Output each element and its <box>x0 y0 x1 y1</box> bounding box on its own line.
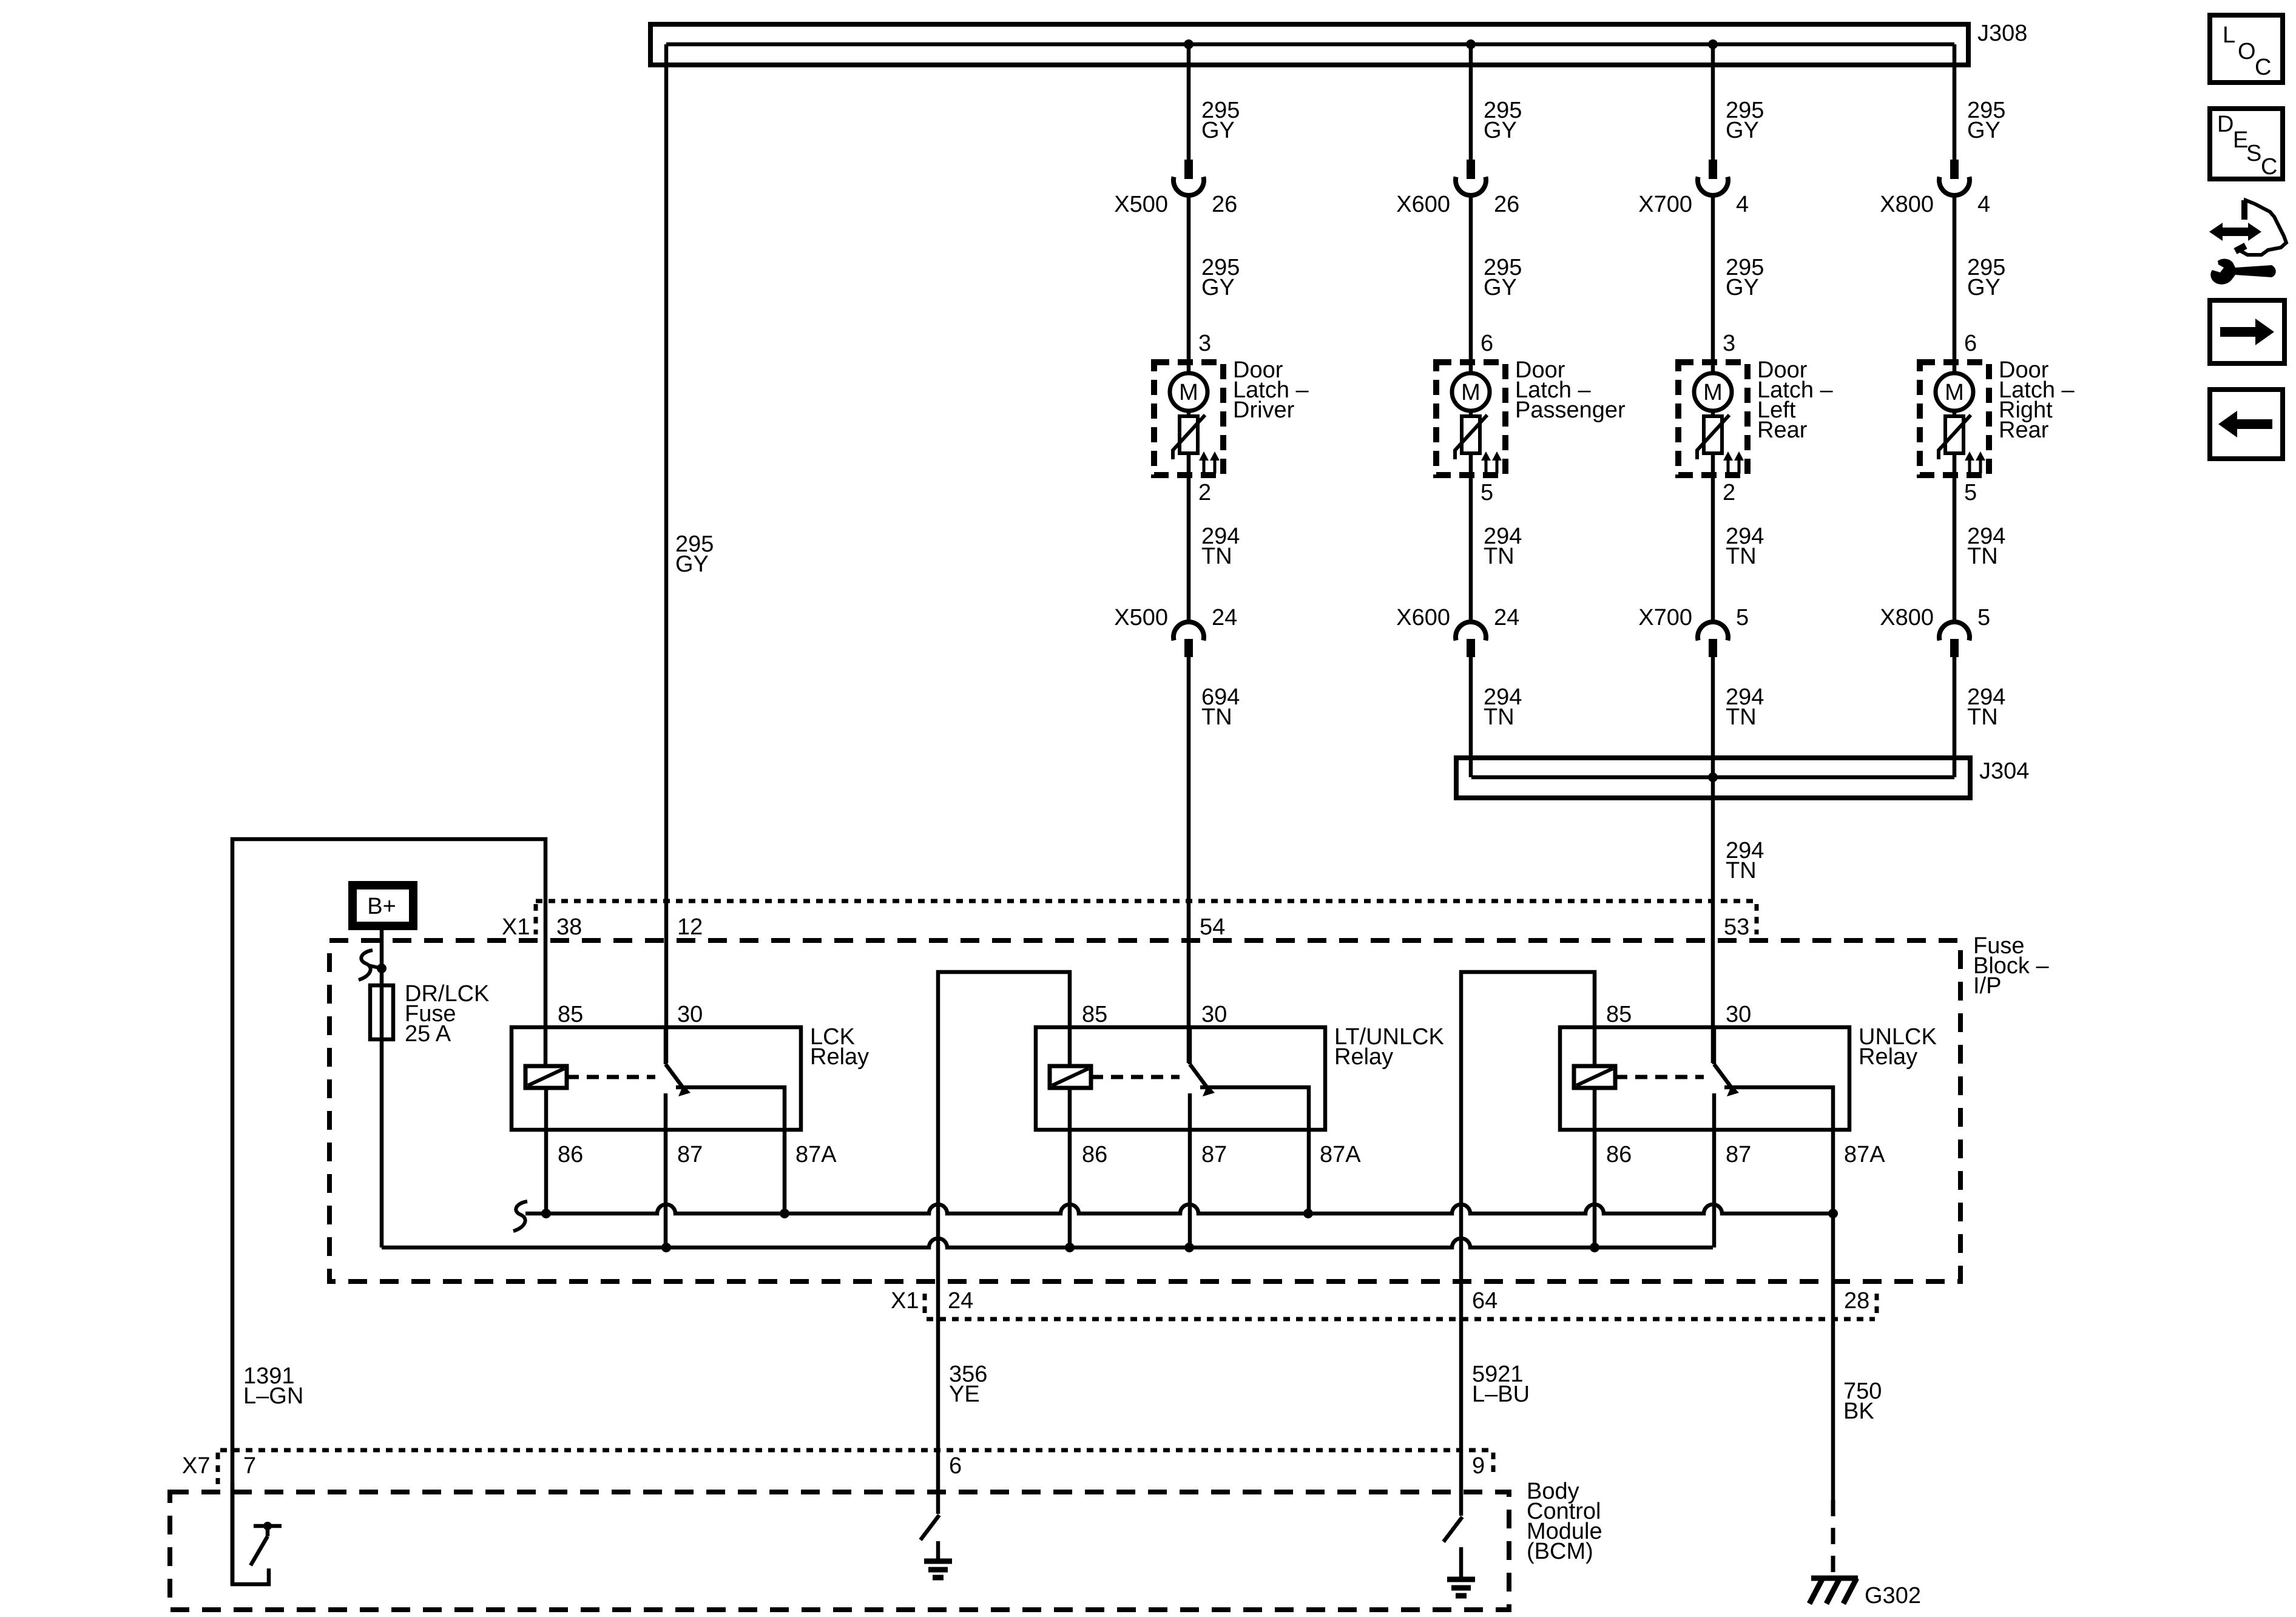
svg-text:TN: TN <box>1726 704 1757 730</box>
svg-text:30: 30 <box>1726 1002 1751 1027</box>
svg-text:X500: X500 <box>1114 605 1168 630</box>
svg-text:6: 6 <box>949 1453 962 1479</box>
svg-text:87A: 87A <box>1320 1142 1361 1167</box>
svg-text:24: 24 <box>1212 605 1237 630</box>
svg-text:YE: YE <box>949 1382 980 1407</box>
svg-text:B+: B+ <box>367 894 396 919</box>
svg-text:GY: GY <box>1484 275 1517 300</box>
svg-text:12: 12 <box>677 914 703 940</box>
svg-text:4: 4 <box>1977 192 1990 217</box>
svg-text:53: 53 <box>1724 914 1749 940</box>
svg-text:TN: TN <box>1726 858 1757 883</box>
svg-text:26: 26 <box>1212 192 1237 217</box>
svg-text:Rear: Rear <box>1757 417 1808 443</box>
svg-text:30: 30 <box>1201 1002 1227 1027</box>
svg-text:86: 86 <box>1606 1142 1632 1167</box>
svg-text:2: 2 <box>1723 480 1735 505</box>
svg-text:TN: TN <box>1484 704 1514 730</box>
svg-text:24: 24 <box>948 1288 973 1314</box>
svg-text:GY: GY <box>675 552 709 577</box>
svg-text:85: 85 <box>1082 1002 1107 1027</box>
svg-text:O: O <box>2238 39 2256 64</box>
svg-text:4: 4 <box>1736 192 1749 217</box>
svg-text:GY: GY <box>1484 118 1517 143</box>
svg-text:30: 30 <box>677 1002 703 1027</box>
svg-text:28: 28 <box>1844 1288 1869 1314</box>
svg-text:3: 3 <box>1723 331 1735 356</box>
svg-text:J304: J304 <box>1979 758 2029 784</box>
svg-text:64: 64 <box>1472 1288 1497 1314</box>
svg-text:X1: X1 <box>502 914 530 940</box>
svg-text:I/P: I/P <box>1973 973 2001 999</box>
svg-text:L–BU: L–BU <box>1472 1382 1530 1407</box>
svg-text:54: 54 <box>1200 914 1225 940</box>
svg-text:24: 24 <box>1494 605 1519 630</box>
svg-text:GY: GY <box>1201 118 1235 143</box>
svg-text:87: 87 <box>677 1142 703 1167</box>
svg-text:TN: TN <box>1484 544 1514 569</box>
svg-text:J308: J308 <box>1977 21 2027 46</box>
svg-text:26: 26 <box>1494 192 1519 217</box>
svg-text:5: 5 <box>1736 605 1749 630</box>
svg-text:M: M <box>1179 380 1198 405</box>
svg-text:25 A: 25 A <box>405 1021 451 1047</box>
svg-text:3: 3 <box>1198 331 1211 356</box>
svg-text:87A: 87A <box>1844 1142 1885 1167</box>
svg-text:X7: X7 <box>182 1453 210 1479</box>
svg-text:Driver: Driver <box>1233 397 1295 423</box>
svg-text:87A: 87A <box>795 1142 837 1167</box>
svg-text:5: 5 <box>1977 605 1990 630</box>
svg-text:X800: X800 <box>1880 192 1934 217</box>
svg-text:M: M <box>1945 380 1964 405</box>
svg-text:9: 9 <box>1472 1453 1485 1479</box>
svg-text:GY: GY <box>1967 275 2001 300</box>
svg-text:TN: TN <box>1726 544 1757 569</box>
svg-text:C: C <box>2261 154 2277 180</box>
svg-text:6: 6 <box>1964 331 1977 356</box>
svg-text:86: 86 <box>1082 1142 1107 1167</box>
svg-text:D: D <box>2217 112 2234 137</box>
svg-text:L–GN: L–GN <box>243 1383 303 1409</box>
svg-text:38: 38 <box>556 914 582 940</box>
svg-text:X700: X700 <box>1638 192 1692 217</box>
svg-text:X700: X700 <box>1638 605 1692 630</box>
svg-text:X500: X500 <box>1114 192 1168 217</box>
svg-text:GY: GY <box>1726 118 1759 143</box>
svg-text:M: M <box>1703 380 1723 405</box>
svg-text:Relay: Relay <box>1334 1044 1393 1070</box>
svg-text:Rear: Rear <box>1999 417 2049 443</box>
svg-text:TN: TN <box>1967 704 1998 730</box>
svg-text:85: 85 <box>1606 1002 1632 1027</box>
svg-text:Relay: Relay <box>1859 1044 1917 1070</box>
svg-text:GY: GY <box>1201 275 1235 300</box>
svg-text:BK: BK <box>1843 1399 1874 1424</box>
svg-text:S: S <box>2246 141 2261 166</box>
svg-text:6: 6 <box>1481 331 1493 356</box>
svg-text:X1: X1 <box>891 1288 919 1314</box>
svg-text:7: 7 <box>243 1453 256 1479</box>
svg-text:5: 5 <box>1481 480 1493 505</box>
svg-text:TN: TN <box>1201 704 1232 730</box>
svg-text:TN: TN <box>1201 544 1232 569</box>
svg-text:L: L <box>2223 22 2235 48</box>
svg-text:Relay: Relay <box>810 1044 869 1070</box>
svg-text:G302: G302 <box>1865 1583 1921 1609</box>
svg-text:M: M <box>1461 380 1481 405</box>
svg-text:Passenger: Passenger <box>1515 397 1626 423</box>
svg-text:X600: X600 <box>1396 192 1450 217</box>
svg-text:85: 85 <box>558 1002 583 1027</box>
svg-text:GY: GY <box>1967 118 2001 143</box>
svg-text:87: 87 <box>1726 1142 1751 1167</box>
svg-text:X600: X600 <box>1396 605 1450 630</box>
svg-text:(BCM): (BCM) <box>1527 1539 1593 1564</box>
svg-text:2: 2 <box>1198 480 1211 505</box>
svg-text:TN: TN <box>1967 544 1998 569</box>
svg-text:C: C <box>2255 55 2271 80</box>
svg-text:86: 86 <box>558 1142 583 1167</box>
svg-text:5: 5 <box>1964 480 1977 505</box>
svg-text:GY: GY <box>1726 275 1759 300</box>
svg-text:87: 87 <box>1201 1142 1227 1167</box>
svg-text:X800: X800 <box>1880 605 1934 630</box>
